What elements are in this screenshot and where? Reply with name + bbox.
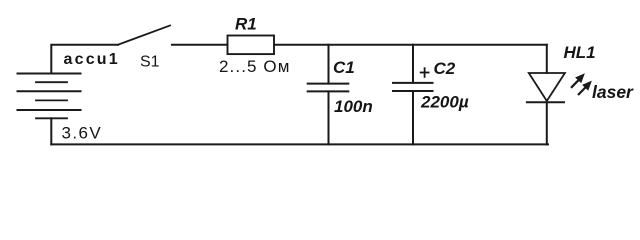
laser emission arrows [571, 74, 591, 95]
svg-text:laser: laser [592, 82, 634, 102]
wire bottom rail [51, 143, 548, 145]
plus sign of C2 [420, 67, 430, 78]
svg-text:2...5 Ом: 2...5 Ом [219, 57, 291, 76]
svg-text:C1: C1 [333, 58, 355, 77]
svg-text:100n: 100n [334, 97, 373, 116]
svg-text:S1: S1 [140, 54, 160, 71]
svg-text:C2: C2 [434, 59, 456, 78]
svg-text:R1: R1 [235, 15, 257, 34]
svg-text:2200µ: 2200µ [420, 93, 469, 112]
wire top rail R1 to right corner [274, 44, 547, 46]
svg-text:HL1: HL1 [564, 43, 596, 62]
wire top rail left segment [51, 45, 118, 73]
capacitor C1 [308, 45, 349, 145]
laser diode HL1 [527, 45, 565, 145]
svg-text:accu1: accu1 [64, 51, 120, 68]
switch S1 [118, 26, 170, 45]
battery accu1 [18, 74, 81, 119]
capacitor C2 [393, 45, 433, 145]
wire battery negative to bottom rail [50, 118, 52, 144]
svg-text:3.6V: 3.6V [62, 124, 103, 143]
wire top rail switch to R1 [172, 44, 228, 46]
resistor R1 [228, 36, 275, 55]
